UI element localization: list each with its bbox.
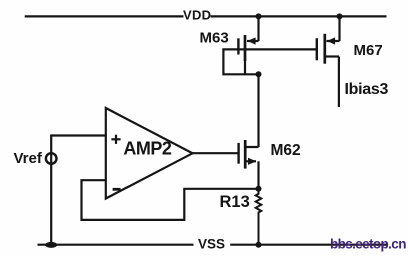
junction dot VDD / M63 source [256, 13, 262, 19]
wire AMP2 output to M62 gate [192, 152, 239, 154]
svg-text:bbs.eetop.cn: bbs.eetop.cn [330, 237, 406, 252]
wire M63 gate-drain tie [223, 49, 258, 74]
svg-text:R13: R13 [220, 193, 250, 211]
transistor M62 [239, 140, 259, 169]
transistor M63 [238, 16, 258, 74]
svg-text:Ibias3: Ibias3 [345, 81, 389, 98]
svg-text:Vref: Vref [14, 150, 43, 167]
junction dot Vref / VSS [45, 242, 57, 248]
terminal Vref [46, 153, 57, 164]
svg-text:VSS: VSS [198, 237, 225, 252]
svg-text:M67: M67 [354, 42, 383, 59]
wire VDD rail right segment [211, 15, 387, 17]
wire M62 source to node A [257, 161, 259, 189]
junction dot VDD / M67 source [337, 13, 343, 19]
svg-text:VDD: VDD [183, 7, 211, 22]
svg-text:M63: M63 [200, 30, 229, 47]
wire VSS rail left segment [38, 244, 194, 246]
transistor M67 [317, 16, 340, 107]
svg-text:AMP2: AMP2 [123, 138, 171, 158]
junction dot R13 / VSS [256, 242, 262, 248]
resistor R13 [256, 189, 262, 245]
wire feedback node A to AMP2 inverting input [82, 180, 259, 220]
junction dot node A (M62 source / R13 / feedback) [256, 186, 262, 192]
wire M63 gate to M67 gate [238, 48, 316, 50]
wire VDD rail left segment [25, 15, 184, 17]
wire VSS rail right segment [230, 244, 388, 246]
wire M63 drain to M62 drain [257, 74, 259, 147]
op-amp AMP2 [106, 108, 193, 199]
junction dot M63 drain node [256, 71, 262, 77]
wire Vref to AMP2 + input [51, 136, 106, 245]
svg-text:M62: M62 [271, 142, 301, 159]
